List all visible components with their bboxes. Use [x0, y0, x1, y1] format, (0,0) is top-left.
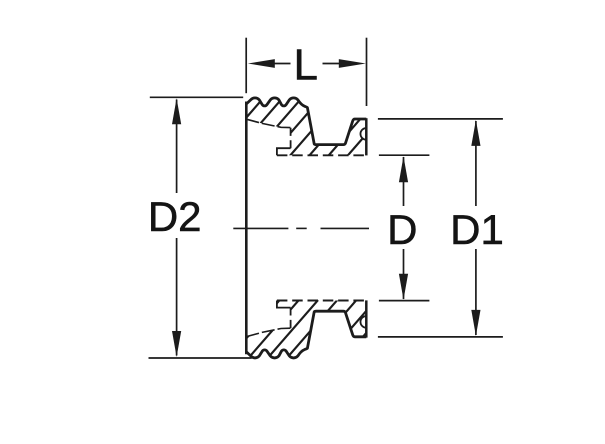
L arrowhead left	[248, 59, 275, 68]
centerline (dash-dot axis)	[233, 227, 369, 229]
fitting cross-section lower half (mirror)	[246, 228, 366, 358]
D dimension	[379, 155, 430, 300]
hidden vertical edge (dashed)	[290, 128, 292, 149]
svg-text:D1: D1	[450, 206, 504, 253]
D1 arrowhead top	[471, 120, 480, 146]
L dimension	[246, 38, 366, 106]
extension line right	[366, 38, 368, 106]
bore hidden line (dashed)	[277, 154, 366, 156]
thread root line	[246, 119, 290, 127]
D2 arrowhead bottom	[172, 331, 181, 357]
outer profile: threads, groove, flange	[246, 98, 366, 145]
left edge of part	[245, 102, 248, 229]
fitting cross-section upper half	[246, 98, 366, 228]
L arrowhead right	[339, 59, 366, 68]
right edge of flange	[365, 118, 368, 155]
svg-text:D2: D2	[148, 193, 202, 240]
extension line left	[245, 38, 247, 93]
D1 dimension	[378, 119, 503, 337]
O-ring circle detail	[360, 128, 366, 140]
D arrowhead bottom	[399, 274, 408, 300]
hatching (both halves, clipped to material)	[34, 90, 597, 362]
D2 arrowhead top	[172, 98, 181, 124]
dim line segments	[273, 63, 291, 65]
step edges	[277, 148, 291, 155]
svg-text:L: L	[294, 41, 318, 90]
svg-text:D: D	[387, 206, 417, 253]
D1 arrowhead bottom	[471, 310, 480, 336]
D arrowhead top	[399, 156, 408, 182]
D2 dimension	[149, 97, 252, 358]
